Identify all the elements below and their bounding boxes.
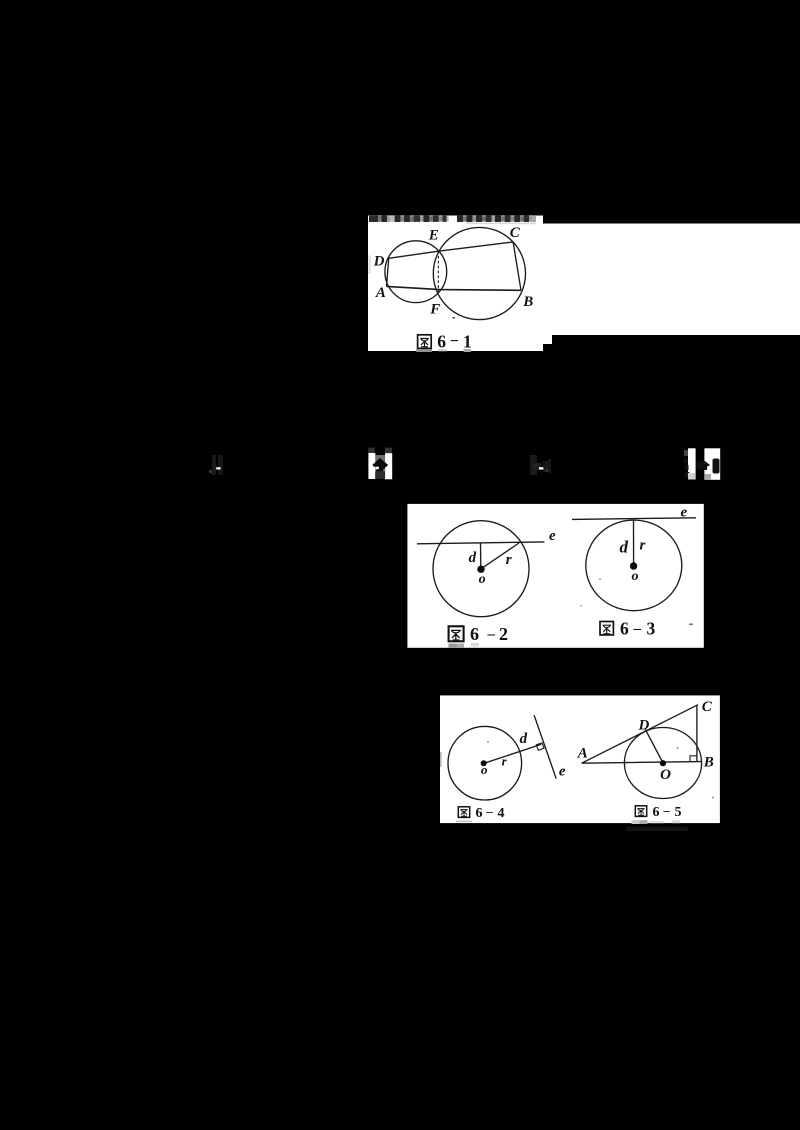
small circle	[385, 241, 447, 303]
svg-text:–: –	[487, 627, 496, 643]
panel 1 bottom step	[543, 335, 552, 344]
radius r (6-2)	[481, 543, 519, 569]
gray smudges under caption 6-2	[449, 644, 457, 649]
caption 图 6-1	[418, 332, 472, 352]
panel 3 white area (figures 6-4, 6-5)	[440, 695, 720, 823]
svg-text:E: E	[428, 227, 439, 243]
svg-text:3: 3	[647, 619, 656, 639]
faint dot bottom-left panel2	[580, 605, 582, 607]
svg-text:C: C	[702, 699, 713, 715]
ghost cluster C (x~540)	[530, 455, 551, 475]
svg-text:d: d	[469, 550, 477, 566]
faint smear below panel 3	[626, 827, 688, 831]
svg-text:A: A	[375, 285, 386, 301]
dashed common chord EF	[437, 251, 439, 292]
horizontal line A-B (6-5)	[582, 762, 701, 764]
tangent line e (6-4)	[534, 715, 556, 778]
secant line e (6-2)	[417, 542, 544, 544]
circle o (6-2)	[433, 521, 529, 617]
svg-text:6: 6	[470, 624, 479, 644]
caption 图 6-3	[600, 619, 656, 639]
svg-text:6: 6	[476, 806, 483, 821]
faint dot inside circle 6-5	[677, 747, 679, 749]
panel 1 white area (figure 6-1)	[368, 216, 543, 352]
svg-text:o: o	[481, 762, 488, 777]
svg-text:–: –	[663, 804, 671, 818]
center dot O (6-5)	[660, 760, 666, 766]
radius line to tangent (6-4)	[484, 744, 541, 763]
svg-text:–: –	[633, 621, 642, 637]
svg-text:4: 4	[498, 806, 505, 821]
ghost cluster B (x~368-393)	[368, 448, 392, 480]
gray smudges under caption 6-5	[632, 820, 640, 824]
svg-text:e: e	[559, 764, 566, 780]
faint dot right side panel 3	[712, 797, 714, 799]
caption 图 6-5	[635, 804, 681, 821]
svg-text:d: d	[520, 731, 528, 747]
vertical C-B (6-5)	[696, 706, 698, 762]
svg-text:6: 6	[620, 619, 629, 639]
bottom line A-F-B	[387, 286, 522, 290]
left side D-A	[387, 258, 389, 286]
center dot o (6-3)	[630, 562, 637, 569]
gray sliver on panel 3 left edge	[440, 752, 442, 767]
figure 6-2	[417, 521, 544, 617]
svg-text:A: A	[577, 746, 588, 762]
svg-text:6: 6	[437, 332, 446, 352]
svg-text:D: D	[638, 718, 650, 734]
svg-text:–: –	[486, 805, 494, 819]
panel 2 white area (figures 6-2, 6-3)	[407, 504, 703, 648]
right side C-B	[513, 242, 521, 290]
gray smudges under caption 6-1	[416, 349, 432, 352]
caption 图 6-2	[449, 624, 508, 644]
svg-text:r: r	[640, 538, 646, 554]
right angle mark at B (6-5)	[690, 756, 697, 762]
svg-text:o: o	[479, 572, 486, 587]
svg-text:C: C	[510, 225, 521, 241]
ghost cluster D (x~688-720)	[684, 448, 720, 480]
svg-text:B: B	[522, 294, 533, 310]
svg-text:5: 5	[675, 805, 682, 820]
svg-text:e: e	[549, 528, 556, 544]
svg-text:d: d	[620, 538, 629, 557]
svg-text:F: F	[429, 302, 440, 318]
caption 图 6-4	[458, 805, 504, 822]
svg-text:e: e	[681, 505, 688, 521]
radius r (6-3)	[633, 520, 635, 563]
faint dot inside circle 6-4	[487, 741, 489, 743]
svg-text:−: −	[450, 333, 459, 350]
ghost text row above figure 6-1	[369, 216, 536, 225]
tangent line e (6-3)	[572, 518, 696, 520]
center dot o (6-4)	[481, 760, 487, 766]
secant line D-E-C	[389, 242, 513, 258]
right angle mark (6-4)	[536, 743, 544, 751]
circle o (6-4)	[448, 726, 522, 800]
segment d (6-2)	[480, 543, 482, 569]
gray smudge under caption 6-4	[456, 821, 472, 822]
svg-text:r: r	[506, 552, 512, 568]
svg-text:6: 6	[653, 805, 660, 820]
center dot o (6-2)	[477, 566, 484, 573]
figure 6-3	[572, 518, 696, 611]
svg-text:o: o	[632, 569, 639, 584]
gray sliver on panel 1 left edge	[368, 256, 371, 275]
svg-text:2: 2	[499, 624, 508, 644]
radius O-D (6-5)	[645, 729, 663, 763]
figure 6-4	[448, 715, 556, 800]
figure 6-1	[385, 227, 526, 319]
svg-text:1: 1	[463, 332, 472, 352]
panel 1 right white band	[536, 224, 800, 336]
ghost cluster A (x~215)	[209, 455, 223, 475]
faint dot inside circle 6-3	[599, 579, 601, 581]
svg-text:B: B	[703, 754, 714, 770]
svg-text:D: D	[373, 253, 385, 269]
figure 6-5	[582, 705, 702, 799]
speck below large circle	[453, 317, 456, 319]
large circle	[433, 227, 525, 319]
circle o (6-3)	[586, 520, 682, 611]
svg-text:O: O	[660, 767, 671, 783]
tangent A-C (6-5)	[582, 705, 698, 764]
circle O (6-5)	[624, 728, 701, 799]
tiny dash right of caption 6-3	[689, 624, 693, 626]
